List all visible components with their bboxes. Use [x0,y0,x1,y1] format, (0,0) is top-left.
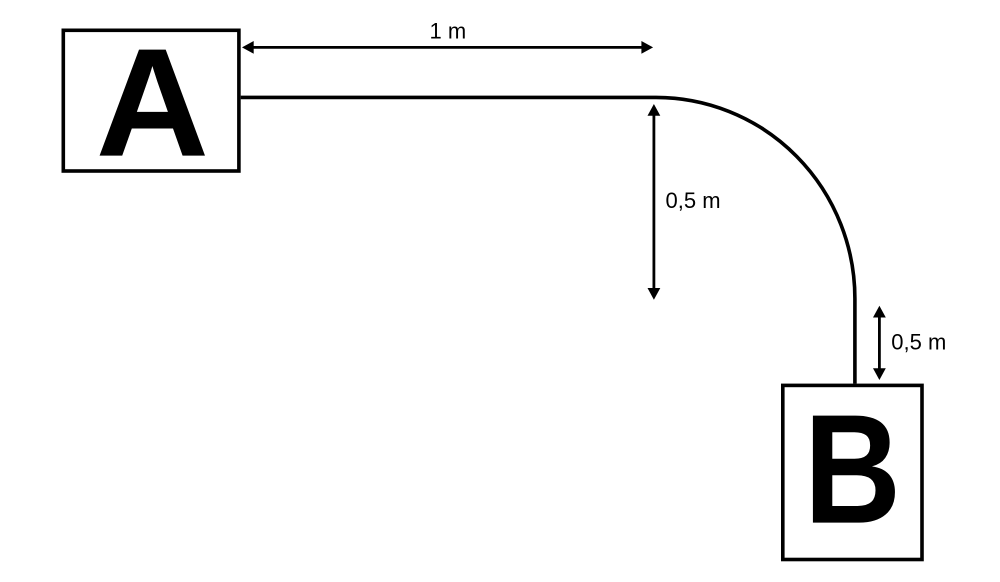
svg-text:A: A [96,16,209,188]
box A [63,30,239,171]
label B [804,381,901,555]
svg-text:0,5 m: 0,5 m [891,329,946,354]
dimension arrow 0,5 m (near B) [873,306,886,380]
label 0,5 m (near B) [891,329,946,354]
wire [241,97,855,383]
box B [783,385,922,559]
dimension arrow 0,5 m (middle) [648,104,661,300]
svg-text:1 m: 1 m [430,18,467,43]
label 0,5 m (middle) [666,188,721,213]
dimension arrow 1 m [242,41,653,54]
svg-text:B: B [804,381,901,555]
label 1 m [430,18,467,43]
svg-text:0,5 m: 0,5 m [666,188,721,213]
label A [96,16,209,188]
